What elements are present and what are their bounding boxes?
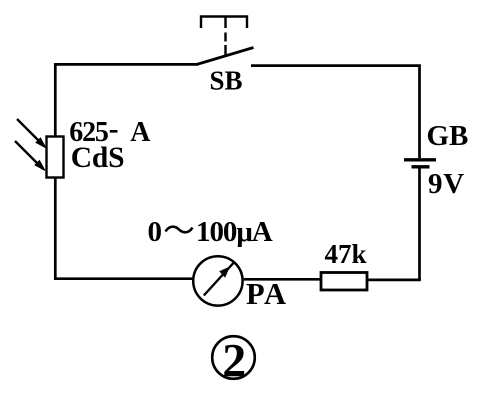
photoresistor R (625-A CdS) body — [47, 137, 64, 178]
svg-text:A: A — [130, 117, 151, 148]
wire top-right horizontal — [251, 64, 421, 67]
meter PA needle — [204, 262, 235, 296]
wire left vertical lower — [54, 177, 57, 280]
light arrow 1 — [17, 119, 47, 149]
wire bottom-left horizontal — [54, 277, 193, 280]
wire right vertical upper — [418, 65, 421, 159]
wire bottom middle — [244, 278, 321, 281]
battery GB long plate — [404, 158, 436, 161]
wire top-left horizontal — [54, 63, 198, 66]
wire bottom-right horizontal — [367, 279, 421, 282]
svg-text:47k: 47k — [325, 239, 367, 269]
switch SB cap bracket — [201, 17, 247, 29]
meter PA body — [193, 256, 242, 305]
svg-text:0: 0 — [148, 216, 163, 248]
svg-text:2: 2 — [222, 334, 246, 387]
resistor 47k body — [321, 273, 367, 291]
svg-text:CdS: CdS — [71, 142, 125, 174]
switch SB lever — [197, 48, 254, 65]
label 0~100uA — [148, 216, 273, 248]
wire right vertical lower — [418, 169, 421, 281]
svg-text:GB: GB — [427, 120, 469, 152]
wire left vertical upper — [54, 63, 57, 137]
light arrow 2 — [15, 141, 46, 172]
battery GB short plate — [412, 165, 430, 168]
tilde of 0~100uA — [166, 227, 193, 233]
svg-text:9V: 9V — [428, 168, 465, 200]
svg-text:100μA: 100μA — [196, 216, 273, 248]
figure number circle — [212, 336, 255, 379]
svg-text:PA: PA — [246, 277, 288, 311]
switch SB plunger (dashed) — [224, 17, 226, 56]
svg-text:SB: SB — [209, 66, 242, 96]
